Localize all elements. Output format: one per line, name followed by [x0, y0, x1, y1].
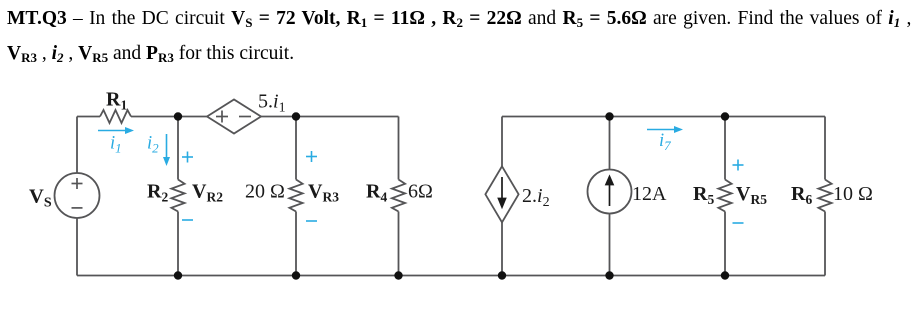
- problem statement line 2: [7, 43, 294, 66]
- wire 20ohm branch upper: [295, 117, 297, 180]
- svg-text:i7: i7: [659, 131, 671, 153]
- dependent voltage source 5.i1 diamond: [207, 100, 261, 134]
- current arrow i1: [98, 130, 126, 132]
- wire 20ohm branch lower: [295, 212, 297, 276]
- node dot top 20ohm: [292, 112, 300, 120]
- wire top-left from corner to R1: [77, 116, 100, 118]
- svg-text:VR3: VR3: [308, 181, 339, 205]
- plus sign VR2: [182, 156, 193, 158]
- arrow inside 2.i2 source: [501, 177, 503, 199]
- wire R6 branch lower: [824, 212, 826, 276]
- svg-text:VR2: VR2: [192, 181, 223, 205]
- problem statement line 1: [7, 8, 911, 31]
- wire R4 branch lower: [398, 212, 400, 276]
- minus sign inside diamond 5.i1: [239, 116, 251, 118]
- dependent current source 2.i2 diamond: [485, 166, 518, 222]
- wire left rail upper (VS top to corner): [76, 117, 78, 174]
- svg-text:i2: i2: [147, 134, 159, 156]
- wire 2.i2 branch upper: [501, 117, 503, 167]
- wire R6 branch upper: [824, 117, 826, 180]
- node dot top R2: [174, 112, 182, 120]
- svg-text:2.i2: 2.i2: [522, 185, 550, 210]
- svg-text:12A: 12A: [632, 183, 667, 205]
- wire 12A branch lower: [609, 214, 611, 276]
- svg-text:20 Ω: 20 Ω: [245, 181, 285, 203]
- node dot bottom R4: [394, 271, 402, 279]
- wire R2 branch lower: [177, 212, 179, 276]
- node dot bottom 12A: [605, 271, 613, 279]
- svg-text:R1: R1: [106, 89, 127, 113]
- node dot bottom R2: [174, 271, 182, 279]
- wire 12A branch upper: [609, 117, 611, 170]
- wire R2 branch upper: [177, 117, 179, 180]
- svg-text:10 Ω: 10 Ω: [833, 183, 873, 205]
- plus sign VR5: [733, 164, 744, 166]
- node dot bottom 20ohm: [292, 271, 300, 279]
- wire bottom rail: [77, 275, 825, 277]
- resistor R4 zigzag: [392, 180, 405, 212]
- minus sign VR5: [733, 222, 744, 224]
- current arrow i7: [647, 129, 675, 131]
- resistor R1 zigzag: [100, 110, 131, 123]
- plus sign inside VS: [72, 183, 83, 185]
- minus sign VR3: [306, 220, 317, 222]
- svg-text:R6: R6: [791, 183, 812, 207]
- svg-text:6Ω: 6Ω: [408, 181, 433, 203]
- arrow inside 12A source: [609, 184, 611, 206]
- node dot top R5: [721, 112, 729, 120]
- svg-text:R4: R4: [366, 181, 387, 205]
- svg-text:R5: R5: [693, 183, 714, 207]
- current arrow i2: [166, 134, 168, 157]
- svg-text:R2: R2: [147, 181, 168, 205]
- node dot bottom R5: [721, 271, 729, 279]
- voltage source VS circle: [55, 173, 100, 218]
- wire R4 branch upper: [398, 117, 400, 180]
- wire diamond right tip to R4 corner: [261, 116, 399, 118]
- svg-text:5.i1: 5.i1: [258, 91, 286, 116]
- plus sign inside diamond 5.i1: [216, 116, 228, 118]
- resistor R6 zigzag: [818, 180, 831, 212]
- minus sign inside VS: [72, 207, 83, 209]
- resistor 20 ohm zigzag: [289, 180, 302, 212]
- wire left rail lower: [76, 218, 78, 276]
- resistor R2 zigzag: [171, 180, 184, 212]
- wire R5 branch upper: [724, 117, 726, 180]
- svg-text:i1: i1: [110, 134, 122, 156]
- wire R1 to diamond left tip: [131, 116, 207, 118]
- svg-text:VS: VS: [29, 186, 52, 211]
- minus sign VR2: [182, 219, 193, 221]
- plus sign VR3: [306, 156, 317, 158]
- node dot bottom 2.i2: [498, 271, 506, 279]
- wire 2.i2 branch lower: [501, 222, 503, 275]
- node dot top 12A: [605, 112, 613, 120]
- resistor R5 zigzag: [718, 180, 731, 212]
- wire right section top rail: [502, 116, 825, 118]
- svg-text:VR5: VR5: [736, 183, 767, 207]
- current source 12A circle: [588, 170, 632, 214]
- wire R5 branch lower: [724, 212, 726, 276]
